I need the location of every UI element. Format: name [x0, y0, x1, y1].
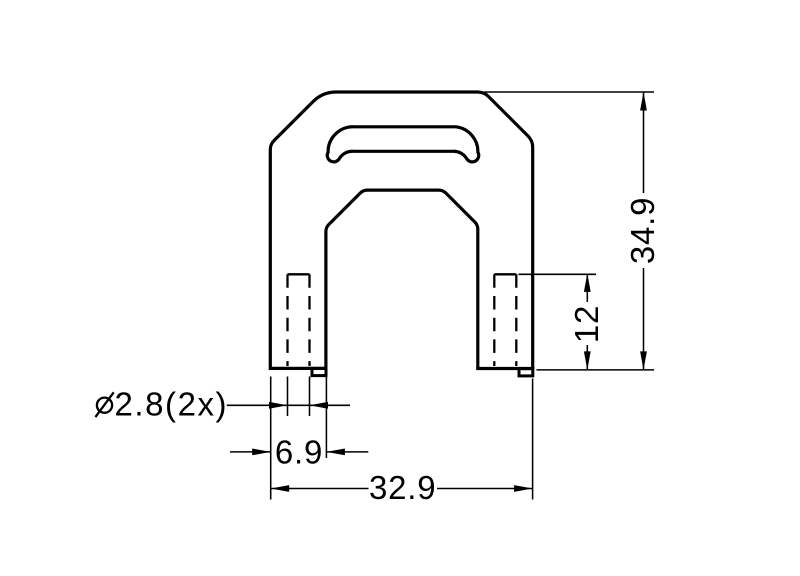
diameter symbol: [95, 392, 113, 417]
svg-text:32.9: 32.9: [369, 469, 436, 506]
dimension 32.9: [271, 469, 533, 506]
svg-text:12: 12: [568, 305, 605, 343]
svg-text:2.8(2x): 2.8(2x): [115, 386, 229, 423]
hidden hole lines left leg: [288, 274, 310, 366]
part outer outline: [270, 92, 532, 369]
extension lines below part: [271, 377, 533, 500]
dimension 34.9: [624, 92, 661, 370]
svg-text:6.9: 6.9: [275, 434, 323, 471]
dimension 12: [568, 273, 605, 370]
left leg pin tab: [312, 368, 326, 375]
right leg pin tab: [519, 369, 533, 376]
handle slot: [327, 127, 478, 162]
dimension dia 2.8 (2x): [95, 386, 350, 423]
svg-text:34.9: 34.9: [624, 197, 661, 264]
hidden hole lines right leg: [494, 274, 516, 366]
dimension 6.9: [230, 434, 368, 471]
extension lines right side: [484, 92, 654, 370]
